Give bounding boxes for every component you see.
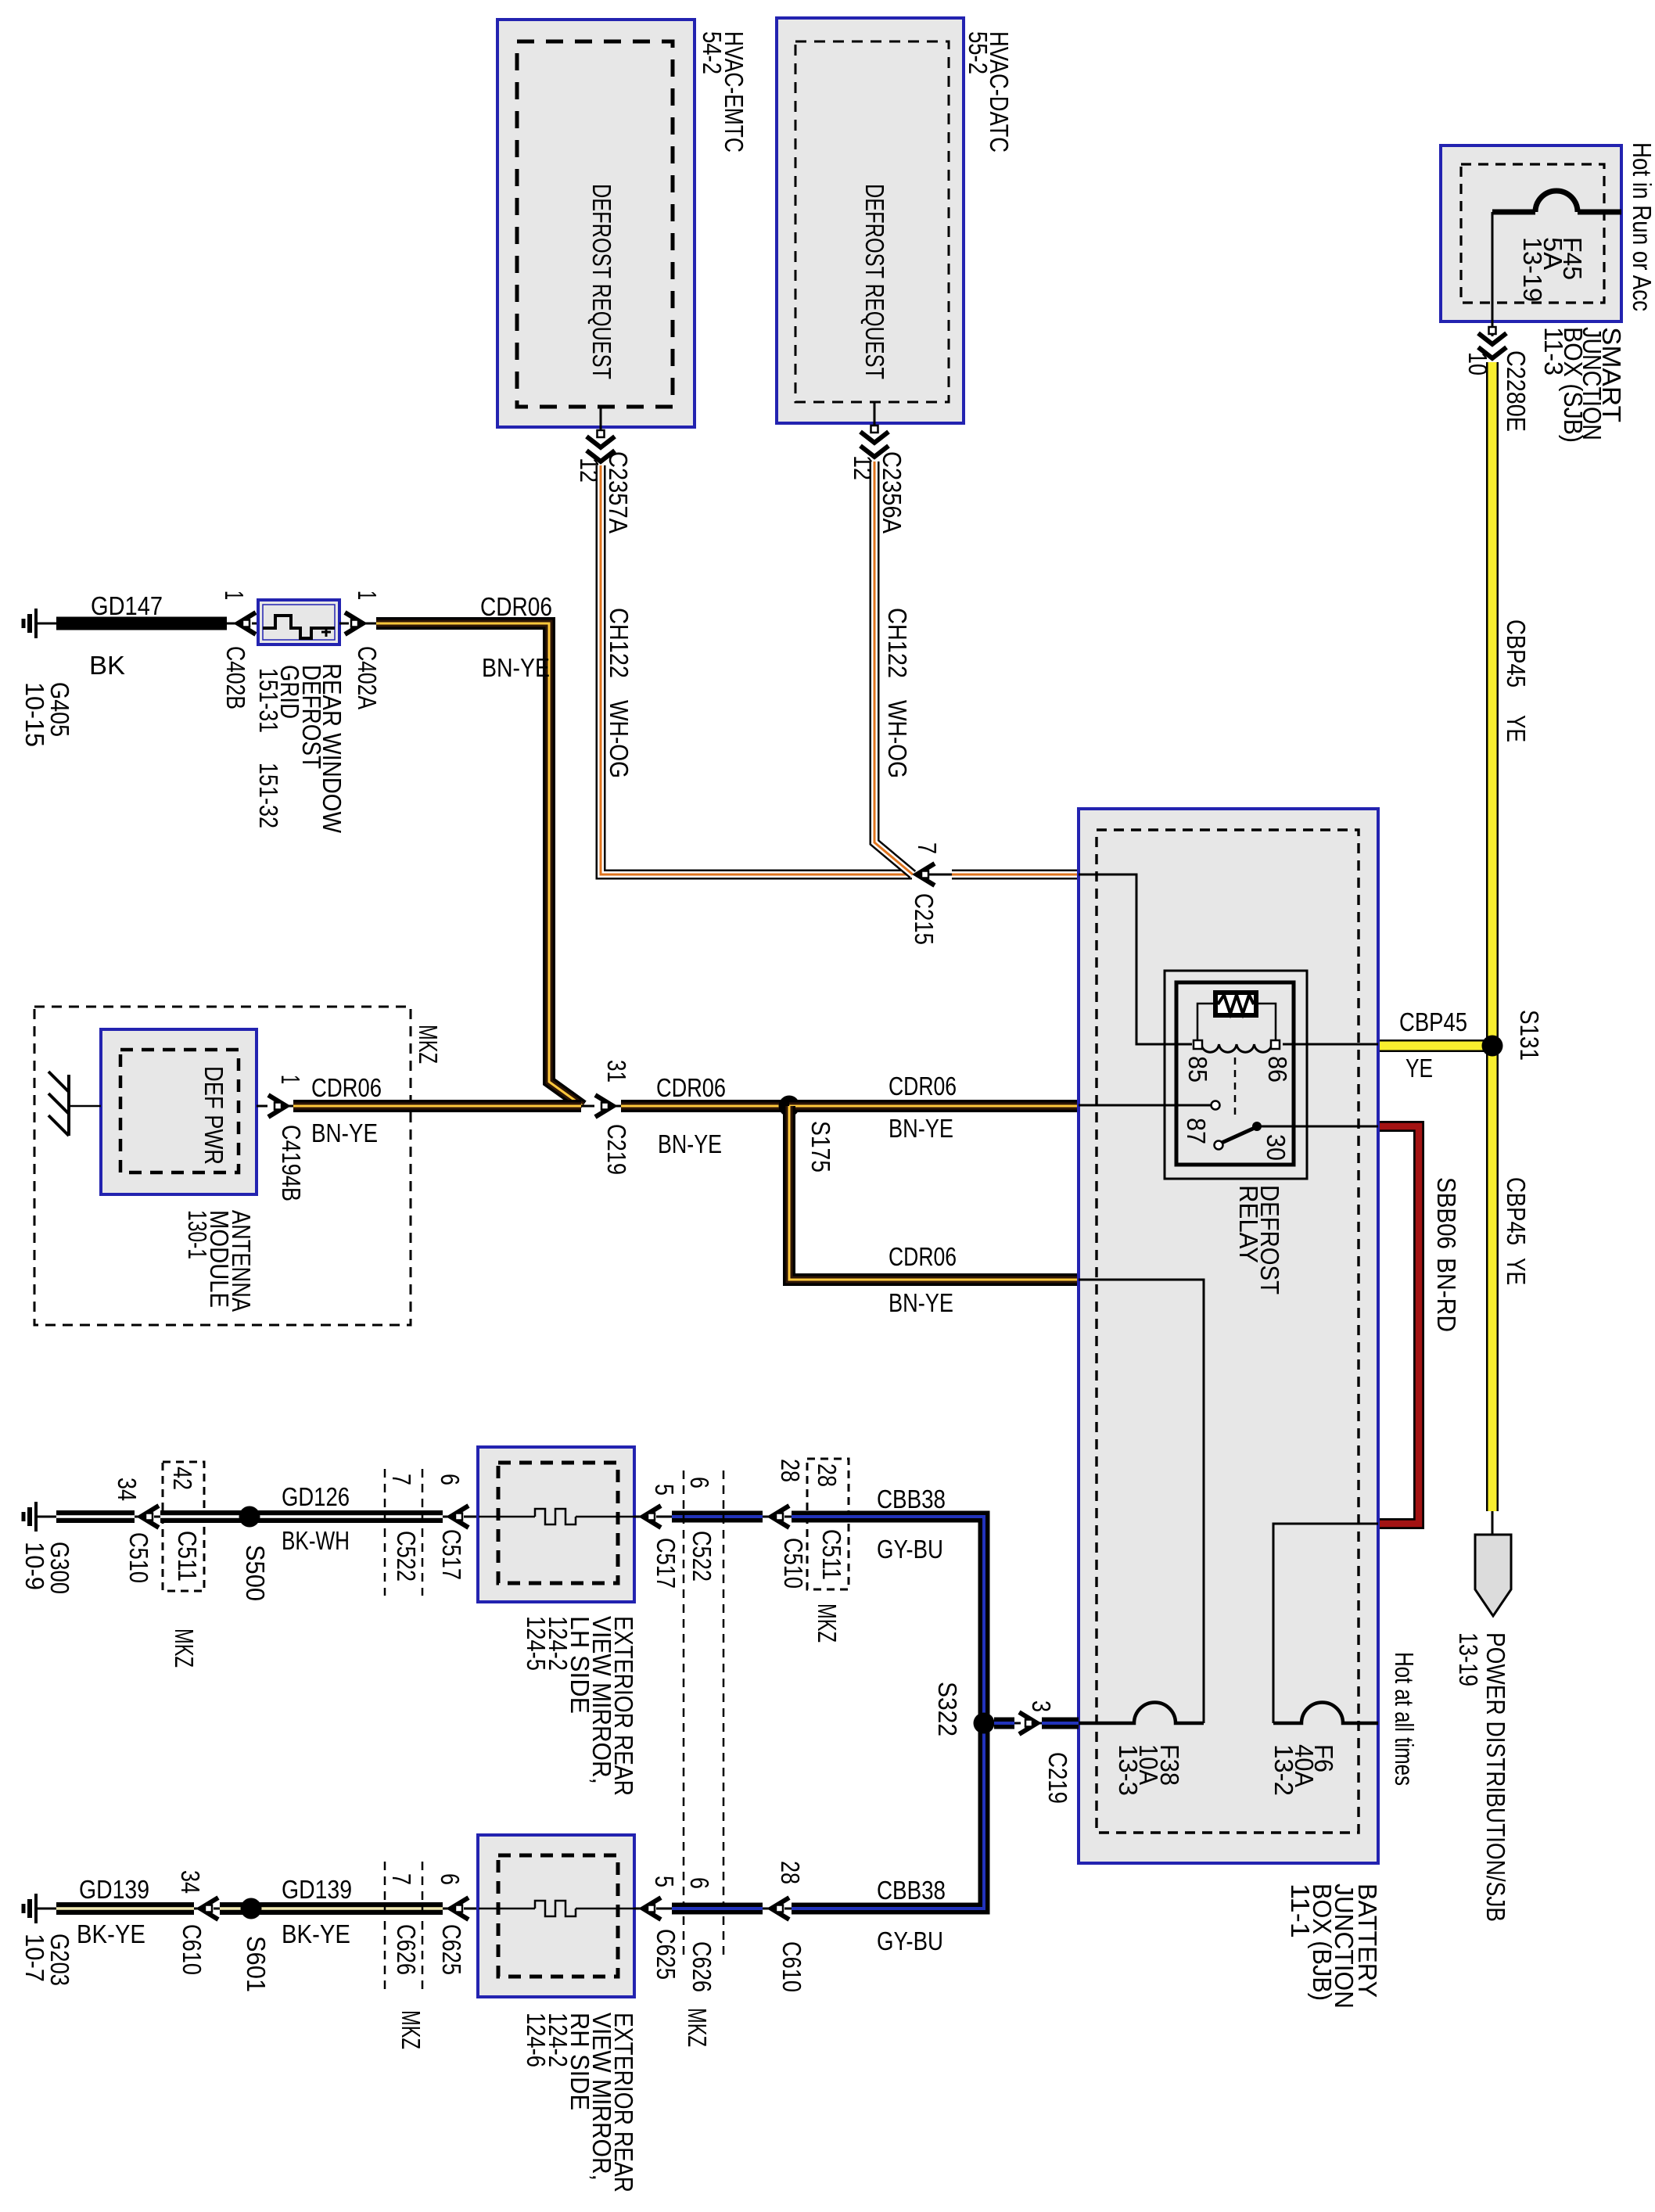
RH mirror inner dashed boundary [498, 1855, 618, 1977]
wire stub from module [257, 1105, 267, 1108]
svg-text:BN-RD: BN-RD [1432, 1258, 1461, 1332]
wire into C219 (pin 3) [1014, 1722, 1021, 1725]
LH mirror inner dashed boundary [498, 1463, 618, 1583]
relay switch pivot [1215, 1141, 1223, 1150]
wire CBP45 YE vertical run [1486, 362, 1499, 1511]
wire into C517 [443, 1516, 451, 1518]
wire CH122 WH-OG from EMTC [601, 465, 912, 874]
connector arrow C2280E [1478, 333, 1506, 344]
svg-text:YE: YE [1405, 1054, 1433, 1083]
off-page arrow POWER DISTRIBUTION/SJB [1475, 1535, 1511, 1616]
connector arrow C402A [345, 612, 363, 634]
wire SBB06 BN-RD from relay pin 30 to fuse F6 [1378, 1126, 1419, 1524]
fuse F6 40A [1273, 1703, 1378, 1724]
svg-text:C522: C522 [392, 1531, 421, 1582]
svg-text:DEFROST REQUEST: DEFROST REQUEST [860, 184, 889, 379]
wire C517 right tail [656, 1516, 672, 1518]
svg-text:SBB06: SBB06 [1432, 1177, 1461, 1249]
wire tail to power distribution arrow [1492, 1511, 1494, 1535]
svg-text:S601: S601 [242, 1936, 271, 1992]
svg-text:GD139: GD139 [79, 1875, 149, 1904]
svg-text:11-3: 11-3 [1539, 327, 1568, 375]
svg-text:86: 86 [1263, 1056, 1292, 1083]
svg-text:YE: YE [1502, 1258, 1531, 1285]
svg-text:MKZ: MKZ [813, 1603, 842, 1643]
wire C625 right tail [656, 1908, 672, 1910]
wire out of LH mirror [634, 1516, 643, 1518]
svg-text:11-1: 11-1 [1286, 1883, 1315, 1938]
splice S175 [779, 1096, 800, 1117]
svg-text:YE: YE [1502, 715, 1531, 742]
svg-text:C517: C517 [437, 1529, 466, 1580]
wire CDR06 BN-YE C219 to S175 [621, 1100, 789, 1112]
svg-text:C511: C511 [173, 1531, 202, 1582]
plus sign [321, 631, 331, 634]
svg-text:C2357A: C2357A [604, 451, 633, 533]
svg-text:CBP45: CBP45 [1502, 619, 1531, 688]
svg-text:31: 31 [602, 1060, 631, 1083]
svg-text:5: 5 [650, 1484, 679, 1496]
svg-text:C2356A: C2356A [878, 451, 906, 533]
svg-text:CBP45: CBP45 [1502, 1177, 1531, 1245]
wire into C610 [194, 1908, 200, 1910]
relay coil right riser [1256, 1004, 1276, 1041]
svg-text:GY-BU: GY-BU [877, 1535, 943, 1564]
wire GD139 BK-YE (ground side) [56, 1902, 194, 1915]
rear window defrost grid element box [258, 600, 339, 645]
wire from F45 to connector C2280E [1492, 212, 1494, 336]
wire into C510 [135, 1516, 141, 1518]
relay switch blade [1222, 1128, 1255, 1143]
HVAC-DATC inner dashed boundary [795, 41, 949, 402]
relay pin 85 terminal [1194, 1040, 1202, 1049]
svg-text:DEF PWR: DEF PWR [199, 1066, 228, 1165]
wire GD147 BK [56, 617, 227, 630]
svg-text:C215: C215 [910, 893, 939, 945]
connector arrow C219 pin 31 [595, 1095, 613, 1117]
svg-text:13-3: 13-3 [1114, 1744, 1143, 1796]
wire stub from EMTC [600, 407, 602, 432]
module box HVAC-EMTC [497, 20, 695, 427]
wire C510 right tail [784, 1516, 792, 1518]
in-line connector C511 dashed box (right) [807, 1459, 849, 1589]
svg-text:BK: BK [89, 651, 125, 680]
relay coil resistor box [1215, 993, 1256, 1015]
wire CBB38 GY-BU stub (RH) [672, 1903, 763, 1915]
svg-text:BN-YE: BN-YE [311, 1119, 378, 1147]
power box BATTERY JUNCTION BOX (BJB) [1079, 809, 1378, 1863]
wire GD139 BK-YE main [220, 1902, 443, 1915]
svg-text:BK-YE: BK-YE [282, 1919, 350, 1948]
svg-text:RELAY: RELAY [1234, 1185, 1263, 1263]
in-line connector C522 dashed pair (left) [384, 1469, 386, 1596]
connector arrow C517 (pin 5) [643, 1506, 661, 1528]
svg-text:3: 3 [1027, 1700, 1056, 1712]
svg-text:CBB38: CBB38 [877, 1876, 946, 1905]
wire CDR06 BN-YE from grid [376, 623, 583, 1106]
wire CDR06 BN-YE from antenna module [293, 1100, 581, 1112]
svg-text:6: 6 [685, 1477, 714, 1488]
svg-text:GD139: GD139 [282, 1875, 352, 1904]
relay pin 86 terminal [1271, 1040, 1280, 1049]
wire GD126 BK-WH main [160, 1510, 443, 1523]
internal wire CDR06 to relay pin 87 [1079, 1104, 1211, 1107]
connector arrow C2356A [860, 432, 889, 443]
svg-text:7: 7 [387, 1873, 416, 1885]
internal wire C215 to relay coil [1079, 874, 1192, 1044]
connector arrow C215 [917, 864, 935, 885]
chassis ground (antenna) [67, 1075, 70, 1136]
wire to ground G405 [36, 623, 56, 625]
svg-text:C626: C626 [687, 1941, 716, 1992]
svg-text:30: 30 [1262, 1134, 1291, 1161]
in-line connector C626 dashed pair (left) [384, 1862, 386, 1991]
connector arrow C625 (pin 6) [451, 1898, 468, 1919]
wire CDR06 BN-YE S175 branch to F38 [789, 1106, 1079, 1280]
splice S131 [1482, 1036, 1503, 1057]
wire C219 tail [613, 1105, 621, 1108]
wire CBB38 GY-BU stub (LH) [672, 1511, 763, 1523]
wire into C625 [443, 1908, 451, 1910]
svg-text:1: 1 [353, 591, 382, 600]
svg-text:C625: C625 [652, 1929, 680, 1980]
wire C510 tail [154, 1516, 160, 1518]
svg-text:CDR06: CDR06 [889, 1072, 957, 1101]
wire CBP45 YE branch to defrost relay coil [1378, 1040, 1492, 1052]
wire out of RH mirror [634, 1908, 643, 1910]
LH mirror heater element [479, 1516, 535, 1518]
connector arrow C4194B [268, 1095, 286, 1117]
svg-text:C4194B: C4194B [277, 1125, 306, 1201]
connector arrow C610 (pin 34) [200, 1898, 218, 1919]
connector arrow C517 (pin 6) [451, 1506, 468, 1528]
svg-text:CBP45: CBP45 [1399, 1007, 1467, 1036]
relay blade contact dot [1252, 1122, 1262, 1131]
module box EXTERIOR REAR VIEW MIRROR RH [478, 1835, 634, 1997]
svg-text:CH122: CH122 [883, 608, 912, 678]
svg-text:10-7: 10-7 [20, 1934, 49, 1982]
svg-text:C517: C517 [652, 1538, 680, 1589]
svg-text:BN-YE: BN-YE [889, 1114, 953, 1143]
svg-text:MKZ: MKZ [414, 1025, 443, 1064]
ground G405 [34, 609, 38, 638]
module box ANTENNA MODULE [101, 1029, 257, 1194]
wire into C402B [227, 623, 239, 625]
svg-text:C511: C511 [817, 1529, 846, 1580]
ground G300 [34, 1502, 38, 1532]
svg-text:POWER DISTRIBUTION/SJB: POWER DISTRIBUTION/SJB [1481, 1632, 1510, 1922]
relay actuation dashed link [1234, 1058, 1237, 1117]
svg-text:28: 28 [776, 1459, 805, 1482]
svg-text:7: 7 [387, 1474, 416, 1485]
svg-text:124-5: 124-5 [522, 1616, 551, 1671]
heater grid symbol [263, 616, 335, 638]
SJB inner dashed boundary [1461, 164, 1604, 303]
svg-text:6: 6 [685, 1877, 714, 1889]
in-line connector C522/C626 long dashed pair [683, 1470, 685, 1955]
svg-text:13-2: 13-2 [1269, 1744, 1298, 1796]
relay coil left riser [1197, 1004, 1215, 1041]
svg-text:151-32: 151-32 [254, 763, 283, 828]
connector arrow C625 (pin 5) [643, 1898, 661, 1919]
svg-text:10-15: 10-15 [20, 682, 49, 747]
svg-text:5: 5 [650, 1876, 679, 1887]
svg-text:BK-WH: BK-WH [282, 1526, 350, 1555]
connector arrow C610 (pin 28) [771, 1898, 789, 1919]
svg-text:CBB38: CBB38 [877, 1485, 946, 1514]
wire C517 tail [464, 1516, 479, 1518]
svg-text:130-1: 130-1 [183, 1210, 212, 1259]
svg-text:C610: C610 [178, 1924, 206, 1975]
svg-text:MKZ: MKZ [683, 2008, 712, 2047]
wire CH122 WH-OG from DATC [874, 461, 913, 874]
internal wire SBB06 to F6 [1273, 1524, 1378, 1723]
svg-text:CH122: CH122 [605, 608, 634, 678]
internal wire CDR06 branch to F38 [1079, 1280, 1204, 1723]
svg-text:BN-YE: BN-YE [658, 1129, 722, 1158]
splice S601 [241, 1898, 262, 1919]
relay pin 87 contact [1212, 1101, 1220, 1110]
relay coil inductor humps [1201, 1044, 1272, 1052]
power source box: SMART JUNCTION BOX (SJB) [1441, 145, 1621, 321]
svg-text:C610: C610 [777, 1941, 806, 1992]
splice S322 [974, 1713, 995, 1734]
svg-text:DEFROST REQUEST: DEFROST REQUEST [587, 184, 616, 379]
svg-text:S322: S322 [933, 1682, 962, 1736]
wire C402A tail [363, 623, 376, 625]
svg-text:55-2: 55-2 [964, 31, 993, 74]
svg-text:C219: C219 [602, 1124, 631, 1175]
wire stub from DATC [874, 402, 876, 427]
wire into C219 [581, 1105, 594, 1108]
wire into C510 right [763, 1516, 771, 1518]
wire CBB38 GY-BU (LH) to S322 [792, 1517, 984, 1718]
ground G203 [34, 1894, 38, 1923]
module box EXTERIOR REAR VIEW MIRROR LH [478, 1447, 634, 1602]
svg-text:13-19: 13-19 [1518, 237, 1547, 302]
connector arrow C219 (pin 3) [1019, 1712, 1037, 1734]
svg-text:C402A: C402A [353, 646, 382, 709]
RH mirror heater element [479, 1908, 535, 1910]
wire GD126 BK-WH (ground side) [56, 1510, 135, 1523]
svg-text:124-6: 124-6 [522, 2013, 551, 2067]
svg-text:34: 34 [176, 1870, 205, 1894]
relay inner box [1176, 982, 1294, 1165]
wire to ground G203 [36, 1908, 56, 1910]
svg-text:87: 87 [1182, 1118, 1211, 1144]
wire C625 tail [464, 1908, 479, 1910]
wire into C610 right [763, 1908, 771, 1910]
wire grid to C402A [339, 623, 349, 625]
module box HVAC-DATC [777, 18, 964, 423]
svg-text:BK-YE: BK-YE [77, 1919, 145, 1948]
wire C610 right tail [784, 1908, 792, 1910]
svg-text:7: 7 [913, 842, 942, 854]
svg-text:WH-OG: WH-OG [883, 700, 912, 778]
svg-text:S500: S500 [241, 1545, 270, 1601]
antenna module inner dashed boundary [120, 1050, 239, 1172]
svg-text:S131: S131 [1515, 1010, 1544, 1061]
svg-text:CDR06: CDR06 [311, 1073, 382, 1102]
wire CBB38 stub into BJB [1037, 1722, 1042, 1725]
svg-text:13-19: 13-19 [1454, 1632, 1483, 1686]
svg-text:MKZ: MKZ [170, 1628, 199, 1668]
svg-text:BN-YE: BN-YE [889, 1288, 953, 1317]
wire CBB38 stub to C219 [994, 1718, 1014, 1729]
svg-text:10-9: 10-9 [20, 1542, 49, 1590]
svg-text:Hot in Run or Acc: Hot in Run or Acc [1628, 142, 1655, 311]
svg-text:MKZ: MKZ [397, 2010, 425, 2049]
HVAC-EMTC inner dashed boundary [517, 41, 673, 407]
svg-text:C626: C626 [392, 1924, 421, 1975]
svg-text:54-2: 54-2 [698, 31, 727, 74]
svg-text:CDR06: CDR06 [889, 1242, 957, 1271]
wire to ground G300 [36, 1516, 56, 1518]
connector arrow C402B [238, 612, 256, 634]
wire C4194B tail [286, 1105, 293, 1108]
svg-text:WH-OG: WH-OG [605, 700, 634, 778]
internal wire relay pin 30 to SBB06 [1261, 1126, 1378, 1128]
svg-text:C510: C510 [124, 1532, 153, 1583]
svg-text:151-31: 151-31 [254, 668, 283, 733]
wire CBB38 GY-BU (RH) to S322 [792, 1729, 984, 1909]
svg-text:28: 28 [813, 1463, 842, 1487]
wire C402B to grid [252, 623, 258, 625]
svg-text:42: 42 [168, 1467, 197, 1490]
BJB inner dashed boundary [1097, 830, 1359, 1833]
svg-text:CDR06: CDR06 [656, 1073, 726, 1102]
wire chassis ground to module [69, 1105, 101, 1108]
wire WH-OG into BJB [928, 874, 952, 876]
svg-text:S175: S175 [806, 1121, 835, 1172]
svg-text:C219: C219 [1043, 1752, 1072, 1804]
svg-text:1: 1 [276, 1075, 305, 1084]
svg-text:34: 34 [113, 1478, 142, 1501]
svg-text:C510: C510 [779, 1538, 808, 1589]
svg-text:BN-YE: BN-YE [482, 653, 550, 682]
relay outer box [1165, 971, 1307, 1179]
internal wire coil 86 to CBP45 [1283, 1043, 1378, 1046]
wire CDR06 BN-YE S175 to defrost relay [789, 1100, 1079, 1112]
svg-text:1: 1 [220, 591, 249, 600]
connector arrow C510 (pin 28) [771, 1506, 789, 1528]
wire C610 tail [214, 1908, 220, 1910]
in-line connector C511 dashed box (left) [163, 1462, 204, 1591]
fuse F45 5A (vertical run inside SJB drawn as thick line with hump) [1578, 210, 1621, 215]
svg-text:Hot at all times: Hot at all times [1390, 1652, 1419, 1786]
svg-text:C522: C522 [687, 1531, 716, 1582]
connector arrow C510 (pin 34) [141, 1506, 159, 1528]
svg-text:28: 28 [776, 1861, 805, 1884]
svg-text:GY-BU: GY-BU [877, 1927, 943, 1955]
svg-text:6: 6 [436, 1474, 465, 1485]
MKZ harness dashed boundary [34, 1007, 411, 1325]
connector arrow C2357A [587, 436, 615, 447]
svg-text:6: 6 [436, 1873, 465, 1885]
splice S500 [239, 1506, 260, 1528]
svg-text:C2280E: C2280E [1502, 350, 1531, 432]
svg-text:C402B: C402B [221, 646, 250, 709]
svg-text:GD147: GD147 [91, 591, 163, 620]
svg-text:GD126: GD126 [282, 1482, 350, 1511]
fuse F38 10A [1079, 1703, 1204, 1724]
svg-text:85: 85 [1183, 1056, 1212, 1083]
svg-text:CDR06: CDR06 [480, 592, 552, 621]
svg-text:C625: C625 [437, 1924, 466, 1975]
